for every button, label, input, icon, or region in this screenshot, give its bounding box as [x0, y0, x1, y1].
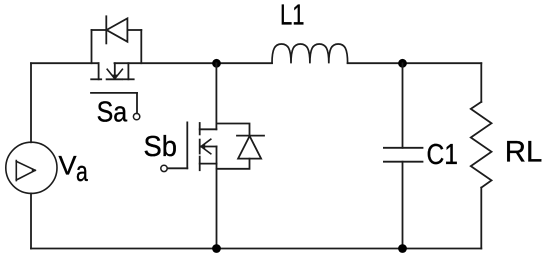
switch Sa mosfet: middle stub to wire: [114, 63, 116, 79]
diode across Sa: right riser: [140, 30, 142, 63]
transistor Sb: gate bar: [186, 122, 188, 168]
node junction dot bottom left: [212, 244, 221, 253]
switch Sa gate lead: [136, 93, 138, 113]
transistor Sb: top bar: [199, 123, 201, 134]
diode across Sb: bottom branch: [217, 159, 250, 169]
transistor Sb: drain stub: [200, 128, 217, 130]
transistor Sb: body arrow: [201, 139, 211, 154]
wire top-left horizontal: [31, 62, 99, 64]
node junction dot top (switch node): [212, 59, 221, 68]
diode across Sa: right horizontal: [127, 29, 141, 31]
wire left rail lower: [30, 193, 32, 248]
switch Sa mosfet: left bar: [91, 78, 101, 80]
wire top right (inductor to RL corner): [348, 62, 482, 64]
diode across Sb: triangle: [238, 136, 261, 159]
wire bottom rail: [31, 248, 481, 250]
voltage source Va circle: [6, 142, 57, 193]
transistor Sb: middle bar: [199, 140, 201, 154]
diode across Sa: cathode bar: [105, 16, 107, 43]
diode across Sb: cathode bar: [237, 135, 264, 137]
svg-text:V: V: [59, 150, 77, 180]
capacitor C1: bottom plate: [384, 161, 423, 163]
svg-text:L1: L1: [280, 0, 305, 32]
svg-text:Sa: Sa: [97, 96, 128, 128]
wire right rail upper: [480, 63, 482, 102]
diode across Sb: top branch: [216, 124, 249, 136]
wire Sb drain vertical: [215, 63, 217, 129]
node junction dot top right (output node): [398, 59, 407, 68]
resistor RL zigzag: [471, 102, 492, 188]
switch Sa mosfet: right bar: [124, 78, 134, 80]
wire top mid (node to inductor): [115, 62, 273, 64]
svg-text:a: a: [76, 156, 88, 188]
wire right rail lower: [480, 188, 482, 249]
wire Sb source vertical: [216, 147, 218, 249]
transistor Sb: gate terminal circle: [161, 165, 167, 171]
wire left rail upper: [30, 63, 32, 142]
capacitor C1: top lead: [402, 63, 404, 148]
switch Sa mosfet: drain drop: [98, 63, 100, 79]
capacitor C1: bottom lead: [402, 162, 404, 249]
transistor Sb: middle stub: [201, 146, 217, 148]
diode across Sa: triangle: [107, 18, 128, 41]
diode across Sa: left horizontal: [92, 29, 106, 31]
svg-text:C1: C1: [427, 139, 459, 171]
transistor Sb: bottom stub: [200, 163, 217, 165]
switch Sa mosfet: source drop: [127, 63, 129, 79]
diode across Sa: left riser: [91, 30, 93, 63]
inductor L1: [272, 44, 348, 63]
switch Sa mosfet: body arrow: [107, 69, 122, 79]
switch Sa gate terminal circle: [133, 113, 139, 119]
switch Sa gate bar: [91, 92, 137, 94]
transistor Sb: bottom bar: [199, 157, 201, 171]
svg-text:Sb: Sb: [144, 131, 178, 163]
capacitor C1: top plate: [384, 147, 423, 149]
svg-text:RL: RL: [505, 135, 543, 168]
node junction dot bottom right: [398, 244, 407, 253]
switch Sa mosfet: middle bar: [107, 78, 123, 80]
transistor Sb: gate lead: [168, 167, 188, 169]
voltage source Va inner symbol: [16, 161, 35, 181]
